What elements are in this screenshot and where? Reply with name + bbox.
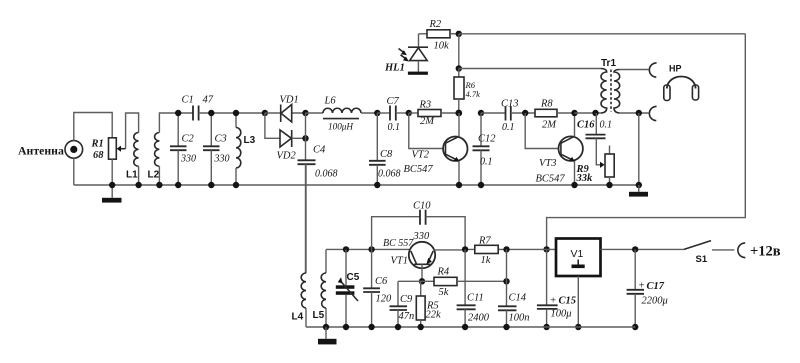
svg-text:2M: 2M xyxy=(420,116,435,127)
svg-text:L1: L1 xyxy=(126,170,138,181)
svg-text:2200μ: 2200μ xyxy=(642,296,668,307)
wire supply row left of V1 xyxy=(465,248,556,250)
inductor L5 xyxy=(321,249,326,327)
svg-text:HP: HP xyxy=(669,64,682,74)
resistor R3 xyxy=(409,110,459,117)
node L3 bottom xyxy=(233,182,239,188)
node R2 right xyxy=(456,31,462,37)
svg-text:VD1: VD1 xyxy=(280,95,299,106)
transistor VT1 xyxy=(409,242,465,281)
svg-text:68: 68 xyxy=(93,150,104,161)
node C9 bottom xyxy=(395,324,401,330)
node C12 top xyxy=(478,110,484,116)
svg-text:100μ: 100μ xyxy=(551,309,572,320)
antenna connector XW1 xyxy=(65,141,83,159)
wire R1 bottom xyxy=(111,159,113,185)
wire C16 wiper to R9 xyxy=(596,138,604,168)
resistor R1 xyxy=(109,138,126,159)
wire ground stub L5 xyxy=(325,327,327,339)
wire right power drop xyxy=(547,34,746,250)
node C5 bottom xyxy=(343,324,349,330)
svg-text:0.068: 0.068 xyxy=(378,169,401,180)
svg-text:C1: C1 xyxy=(182,95,194,106)
node VT1 bottom xyxy=(419,278,425,284)
capacitor C1 xyxy=(193,106,199,121)
svg-text:R4: R4 xyxy=(437,267,450,278)
wire VD2 left drop xyxy=(265,113,280,138)
capacitor C15 xyxy=(537,249,558,327)
capacitor C17 xyxy=(627,249,644,327)
svg-text:L3: L3 xyxy=(244,135,256,146)
svg-text:0.1: 0.1 xyxy=(480,157,493,168)
svg-text:0.1: 0.1 xyxy=(502,122,515,133)
node R3 left xyxy=(406,110,412,116)
node C8 bottom xyxy=(374,182,380,188)
node L1 bottom xyxy=(135,182,141,188)
svg-text:C10: C10 xyxy=(413,201,431,212)
capacitor C10 xyxy=(372,210,466,250)
capacitor C9 xyxy=(390,281,408,327)
inductor L4 xyxy=(301,164,306,327)
node C2 top xyxy=(175,110,181,116)
wire VT3 collector to Tr1 xyxy=(575,112,602,114)
capacitor C5 variable xyxy=(336,249,358,327)
wire V1 right pin xyxy=(601,248,685,250)
node C3 bottom xyxy=(208,182,214,188)
resistor R4 xyxy=(422,277,507,285)
svg-text:Антенна: Антенна xyxy=(18,144,64,158)
wire R3 base feedback xyxy=(409,113,444,149)
svg-text:HL1: HL1 xyxy=(384,63,405,74)
svg-text:C3: C3 xyxy=(215,134,227,145)
ground below HL1 xyxy=(408,72,428,75)
svg-text:C14: C14 xyxy=(509,293,527,304)
svg-text:L6: L6 xyxy=(324,96,337,107)
node R8 left xyxy=(522,110,528,116)
node C6 top xyxy=(368,246,374,252)
wire VD right riser xyxy=(305,113,307,138)
wire ground rail xyxy=(74,184,639,186)
resistor R7 xyxy=(475,245,498,253)
svg-text:C17: C17 xyxy=(647,281,665,292)
svg-text:+: + xyxy=(550,296,557,307)
svg-text:47: 47 xyxy=(203,95,214,106)
node VT1 emitter top xyxy=(462,246,468,252)
svg-text:C7: C7 xyxy=(387,96,400,107)
wire C1 right xyxy=(199,112,265,114)
capacitor C3 xyxy=(203,113,220,185)
wire VT1 base row xyxy=(326,248,409,250)
svg-text:C4: C4 xyxy=(313,145,326,156)
transformer Tr1 secondary xyxy=(614,70,620,114)
wire R1 ground stub xyxy=(111,185,113,198)
svg-text:Tr1: Tr1 xyxy=(601,58,616,69)
svg-text:L5: L5 xyxy=(313,310,325,321)
svg-text:C9: C9 xyxy=(400,294,413,305)
capacitor C2 xyxy=(170,113,187,185)
diode VD1 xyxy=(265,105,306,123)
capacitor C16 xyxy=(586,113,606,138)
wire secondary bottom to ground xyxy=(638,113,640,185)
svg-text:330: 330 xyxy=(413,231,431,242)
resistor R8 xyxy=(535,109,575,117)
transistor VT3 xyxy=(559,113,583,185)
resistor R6 xyxy=(454,69,464,114)
capacitor C4 xyxy=(298,138,316,273)
capacitor C7 xyxy=(377,106,409,121)
svg-text:120: 120 xyxy=(376,294,393,305)
wire R8 base feedback xyxy=(525,113,559,149)
svg-text:V1: V1 xyxy=(571,248,584,260)
svg-text:L4: L4 xyxy=(292,312,304,323)
node C14 bottom xyxy=(503,324,509,330)
headphones HP xyxy=(664,77,699,101)
svg-text:330: 330 xyxy=(180,154,196,165)
resistor R5 xyxy=(416,281,425,327)
node ground right xyxy=(636,182,642,188)
wire Tr1 secondary bottom xyxy=(620,112,649,114)
svg-text:1k: 1k xyxy=(481,255,491,266)
svg-text:C13: C13 xyxy=(501,99,519,110)
node C8 top xyxy=(374,110,380,116)
capacitor C14 xyxy=(498,306,517,327)
switch S1 xyxy=(684,241,734,250)
svg-text:VT2: VT2 xyxy=(412,150,430,161)
jack bottom xyxy=(649,106,656,120)
wire antenna top loop xyxy=(74,113,112,141)
wire L1 bottom xyxy=(138,166,140,185)
node C15 bottom xyxy=(543,324,549,330)
svg-text:0.1: 0.1 xyxy=(600,120,613,131)
inductor L2 xyxy=(155,133,160,167)
jack top xyxy=(649,63,656,77)
wire top supply rail xyxy=(459,33,746,35)
svg-text:C11: C11 xyxy=(467,293,484,304)
svg-text:VD2: VD2 xyxy=(277,151,297,162)
node V1 output xyxy=(543,246,549,252)
svg-text:330: 330 xyxy=(214,154,230,165)
node R1 bottom xyxy=(109,182,115,188)
svg-text:C5: C5 xyxy=(347,272,360,283)
node C2 bottom xyxy=(175,182,181,188)
svg-text:C8: C8 xyxy=(380,149,393,160)
capacitor C12 xyxy=(473,113,490,185)
wire second rail to Tr1 xyxy=(459,68,601,70)
resistor R2 xyxy=(419,30,459,38)
svg-text:C15: C15 xyxy=(559,296,577,307)
capacitor C11 xyxy=(457,249,476,327)
wire L2 bottom xyxy=(158,166,160,185)
node C6 bottom xyxy=(368,324,374,330)
node R7 right xyxy=(503,246,509,252)
wire V1 bottom pin xyxy=(577,276,579,327)
svg-text:5k: 5k xyxy=(439,287,449,298)
node VD1 left xyxy=(262,110,268,116)
svg-text:2400: 2400 xyxy=(468,313,490,324)
node second rail xyxy=(456,65,462,71)
capacitor C13 xyxy=(481,107,535,121)
node V1 bottom xyxy=(575,324,581,330)
node R9 bottom xyxy=(606,182,612,188)
node C17 bottom xyxy=(632,324,638,330)
svg-text:R7: R7 xyxy=(478,236,491,247)
svg-text:R3: R3 xyxy=(419,100,432,111)
wire R2 to R6 riser xyxy=(458,34,460,69)
node R5 bottom xyxy=(418,324,424,330)
svg-text:33k: 33k xyxy=(576,173,594,184)
svg-text:C2: C2 xyxy=(182,134,195,145)
svg-text:100n: 100n xyxy=(509,313,530,324)
node C17 top xyxy=(632,246,638,252)
svg-text:C12: C12 xyxy=(478,134,496,145)
svg-text:VT1: VT1 xyxy=(391,256,409,267)
wire R7 to C14 column xyxy=(506,249,508,306)
node C12 bottom xyxy=(478,182,484,188)
node C11 bottom xyxy=(462,324,468,330)
node VT3 collector xyxy=(571,110,577,116)
wire R1 wiper riser to L1 xyxy=(126,113,139,149)
svg-text:BC 557: BC 557 xyxy=(383,238,414,249)
node VD2 right xyxy=(302,135,308,141)
svg-text:R2: R2 xyxy=(429,19,442,30)
svg-text:10k: 10k xyxy=(434,41,450,52)
svg-text:22k: 22k xyxy=(426,310,442,321)
transformer Tr1 core xyxy=(610,70,612,112)
regulator V1 xyxy=(556,239,601,277)
node VT2 emitter xyxy=(456,182,462,188)
node C16 top xyxy=(592,110,598,116)
inductor L1 xyxy=(134,133,139,167)
node VD right top xyxy=(302,110,308,116)
wire antenna bottom xyxy=(73,158,75,185)
node C5 top xyxy=(343,246,349,252)
ground below R1 xyxy=(102,198,122,203)
svg-text:R1: R1 xyxy=(91,139,104,150)
transformer Tr1 primary xyxy=(601,69,607,114)
led HL1 xyxy=(399,34,429,72)
svg-text:R8: R8 xyxy=(540,99,553,110)
node VT2 collector xyxy=(455,110,462,117)
node L3 top xyxy=(233,110,239,116)
wire ground stub right xyxy=(638,185,640,192)
svg-text:C6: C6 xyxy=(375,276,388,287)
svg-text:2M: 2M xyxy=(542,120,557,131)
diode VD2 xyxy=(280,130,306,147)
wire emitter row to C9 xyxy=(398,280,422,282)
node R4 right xyxy=(503,278,509,284)
transistor VT2 xyxy=(443,113,467,185)
svg-text:4.7k: 4.7k xyxy=(466,89,481,99)
svg-text:S1: S1 xyxy=(696,254,708,265)
inductor L3 xyxy=(236,113,241,185)
svg-text:BC547: BC547 xyxy=(536,174,566,185)
svg-text:VT3: VT3 xyxy=(539,158,557,169)
svg-text:0.068: 0.068 xyxy=(315,169,338,180)
capacitor C6 xyxy=(363,249,380,327)
svg-text:+12в: +12в xyxy=(750,244,781,260)
wire Tr1 secondary top to jack xyxy=(620,69,649,71)
capacitor C8 xyxy=(369,113,386,185)
inductor L6 xyxy=(306,108,378,118)
svg-text:L2: L2 xyxy=(148,170,160,181)
ground right xyxy=(629,192,648,197)
node C3 top xyxy=(208,110,214,116)
node L2 bottom xyxy=(156,182,162,188)
node VT3 emitter xyxy=(571,182,577,188)
ground below L5 xyxy=(318,339,337,345)
svg-text:+: + xyxy=(638,281,645,292)
connector +12в xyxy=(738,243,746,258)
resistor R9 xyxy=(605,146,614,186)
svg-text:BC547: BC547 xyxy=(404,164,434,175)
svg-text:100μH: 100μH xyxy=(328,122,354,132)
svg-text:0.1: 0.1 xyxy=(388,122,401,133)
node L5 bottom xyxy=(323,324,329,330)
svg-text:C16: C16 xyxy=(577,120,595,131)
svg-text:47n: 47n xyxy=(399,311,415,322)
node secondary bottom xyxy=(636,110,642,116)
wire bottom rail xyxy=(306,326,635,328)
wire L2 top xyxy=(159,113,193,133)
